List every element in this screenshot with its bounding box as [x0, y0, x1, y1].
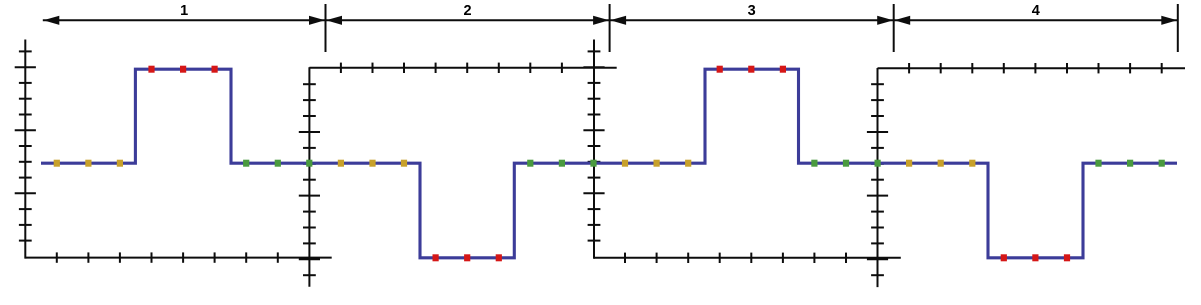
svg-text:4: 4: [1032, 3, 1040, 19]
svg-text:1: 1: [180, 3, 188, 19]
svg-text:2: 2: [464, 3, 472, 19]
svg-text:3: 3: [748, 3, 756, 19]
